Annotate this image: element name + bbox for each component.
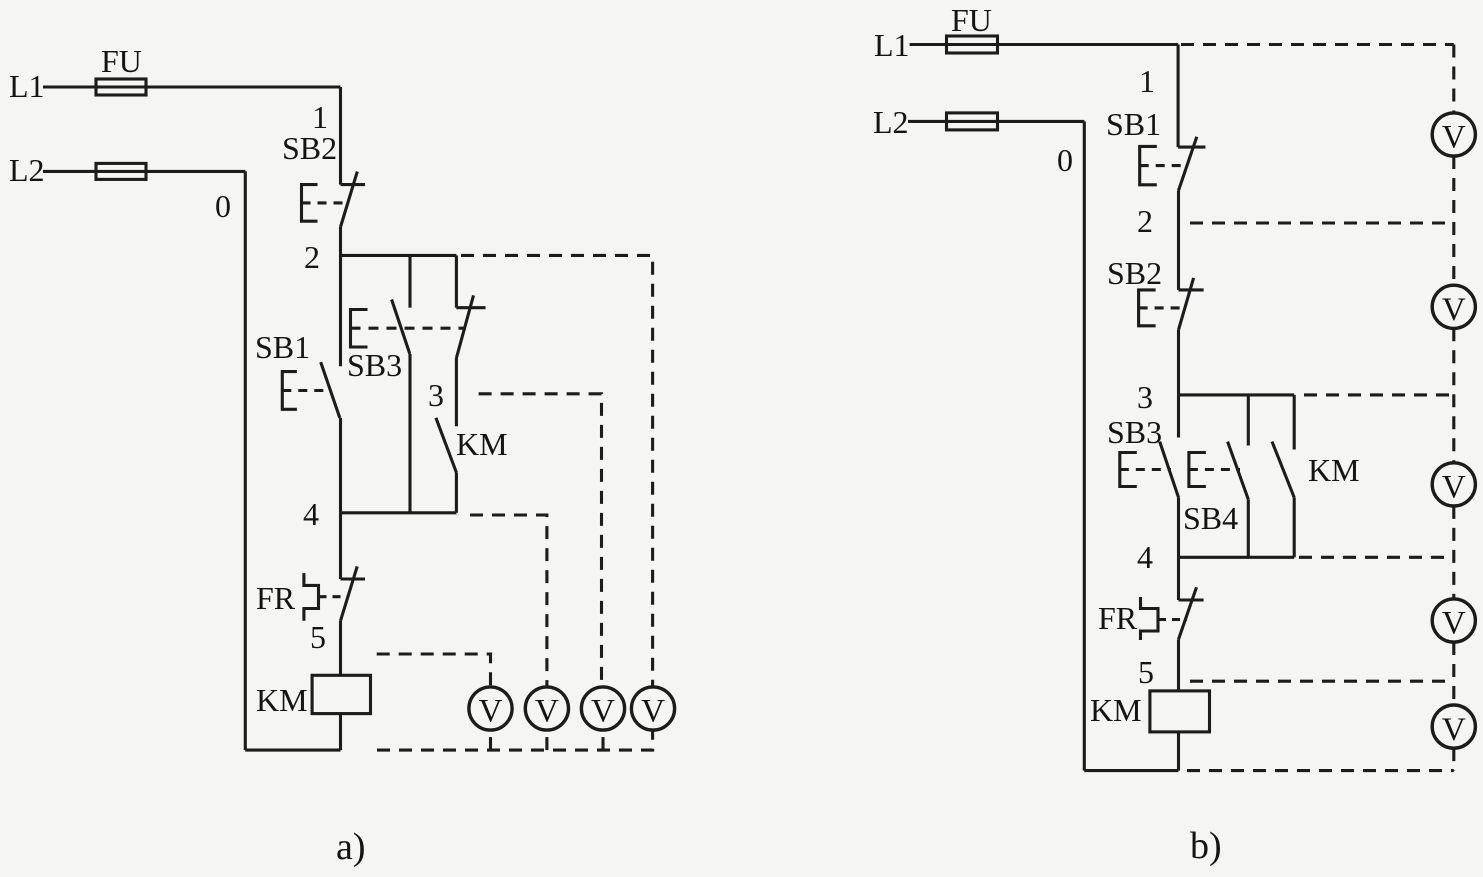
svg-text:SB1: SB1	[1106, 106, 1161, 142]
svg-text:FR: FR	[256, 580, 296, 616]
svg-text:4: 4	[1137, 539, 1153, 575]
svg-text:L1: L1	[874, 27, 910, 63]
svg-text:FR: FR	[1098, 600, 1138, 636]
svg-text:L2: L2	[873, 104, 909, 140]
svg-text:V: V	[591, 694, 615, 730]
svg-text:KM: KM	[1308, 452, 1360, 488]
svg-text:SB2: SB2	[1107, 255, 1162, 291]
svg-text:SB2: SB2	[282, 130, 337, 166]
svg-text:2: 2	[1137, 203, 1153, 239]
svg-text:SB4: SB4	[1183, 500, 1238, 536]
svg-text:3: 3	[1137, 379, 1153, 415]
svg-text:SB3: SB3	[347, 347, 402, 383]
svg-text:V: V	[1442, 292, 1466, 328]
svg-text:1: 1	[1139, 63, 1155, 99]
svg-text:5: 5	[1138, 654, 1154, 690]
svg-text:V: V	[1442, 712, 1466, 748]
svg-text:0: 0	[1057, 142, 1073, 178]
svg-text:5: 5	[310, 619, 326, 655]
svg-text:KM: KM	[456, 426, 508, 462]
svg-text:4: 4	[303, 496, 319, 532]
svg-text:3: 3	[428, 377, 444, 413]
svg-text:0: 0	[215, 188, 231, 224]
svg-text:KM: KM	[256, 682, 308, 718]
svg-text:KM: KM	[1090, 692, 1142, 728]
svg-text:SB3: SB3	[1107, 414, 1162, 450]
svg-text:V: V	[1442, 470, 1466, 506]
svg-text:V: V	[1442, 120, 1466, 156]
svg-text:V: V	[641, 694, 665, 730]
svg-text:V: V	[1442, 606, 1466, 642]
svg-text:V: V	[479, 694, 503, 730]
svg-text:L1: L1	[9, 68, 45, 104]
svg-text:2: 2	[304, 239, 320, 275]
svg-text:V: V	[535, 694, 559, 730]
svg-text:FU: FU	[101, 43, 142, 79]
svg-text:a): a)	[336, 826, 366, 868]
svg-text:L2: L2	[9, 152, 45, 188]
svg-text:SB1: SB1	[255, 329, 310, 365]
svg-text:FU: FU	[951, 2, 992, 38]
svg-text:b): b)	[1190, 825, 1222, 867]
